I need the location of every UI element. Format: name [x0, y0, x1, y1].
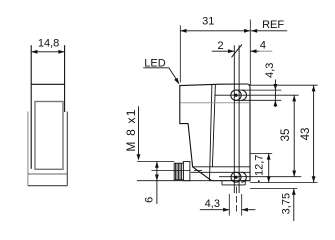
svg-text:43: 43: [300, 128, 312, 141]
svg-text:REF: REF: [262, 19, 284, 31]
svg-text:M 8 x1: M 8 x1: [124, 108, 138, 151]
svg-text:6: 6: [143, 197, 155, 203]
svg-text:3,75: 3,75: [281, 193, 293, 214]
svg-text:2: 2: [218, 40, 224, 52]
svg-text:4: 4: [260, 40, 266, 52]
svg-text:4,3: 4,3: [205, 198, 220, 210]
svg-text:35: 35: [280, 129, 292, 142]
svg-text:12,7: 12,7: [253, 155, 265, 176]
svg-text:31: 31: [202, 15, 214, 27]
svg-text:14,8: 14,8: [38, 38, 59, 50]
svg-text:4,3: 4,3: [264, 63, 276, 78]
